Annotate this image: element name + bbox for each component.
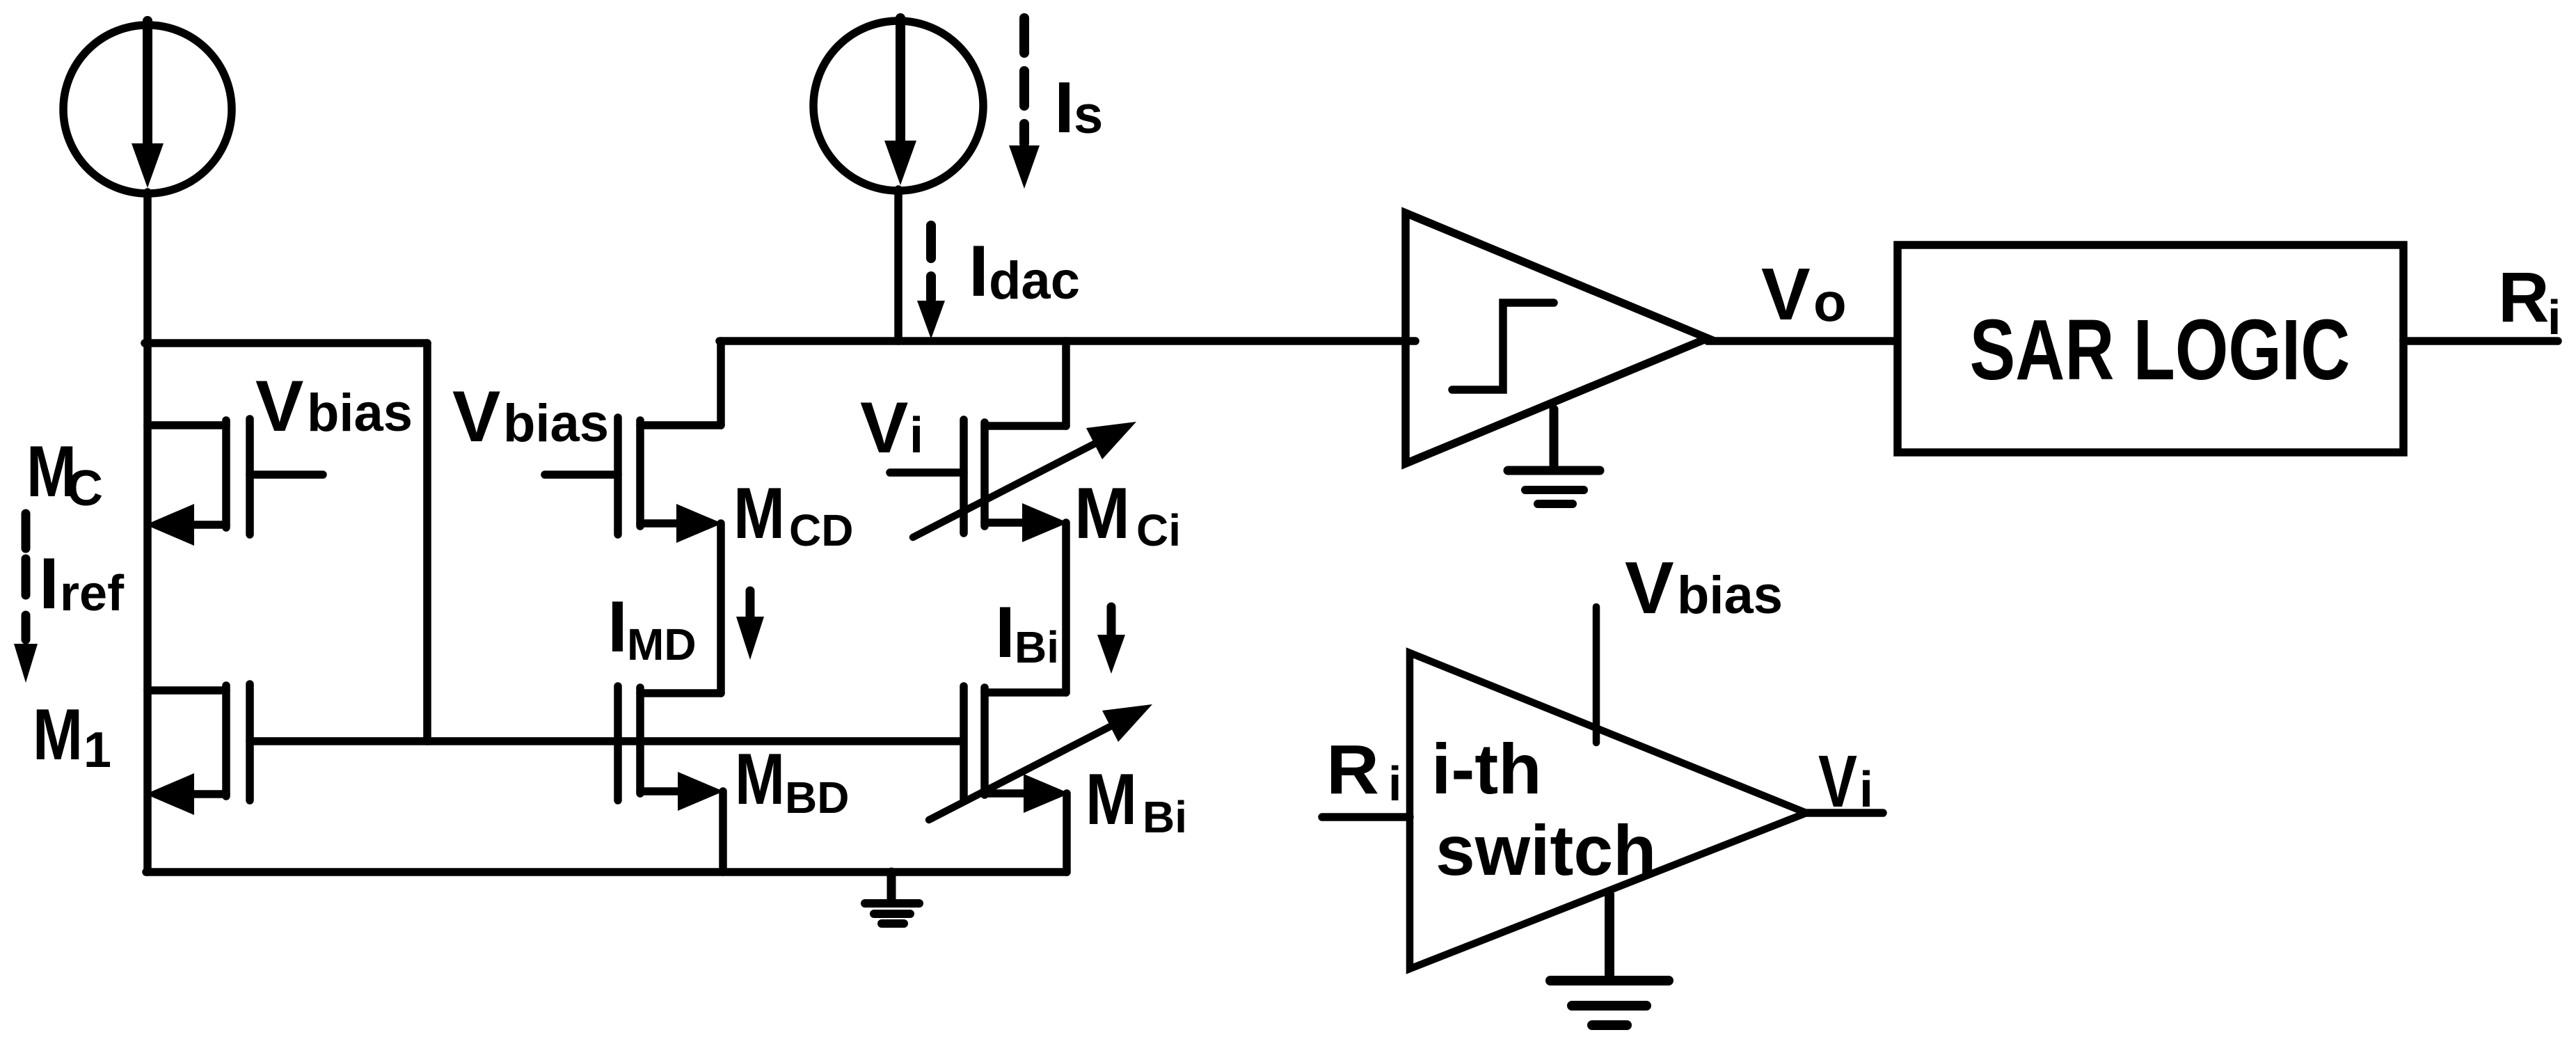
wire: i-th switch output Vi	[1806, 809, 1883, 817]
svg-text:M: M	[733, 473, 785, 554]
dashed arrow Iref	[14, 514, 38, 683]
svg-text:V: V	[1625, 547, 1674, 629]
Vbias stub (i-th switch)	[1593, 607, 1600, 743]
current source Is arrow	[896, 18, 905, 141]
svg-text:BD: BD	[785, 773, 849, 823]
wire: CS2 drop to DAC node	[894, 189, 903, 341]
transistor MC	[145, 419, 323, 546]
current source Is (top-middle)	[813, 21, 983, 191]
wire: bottom rail	[146, 868, 1067, 876]
svg-text:M: M	[33, 695, 83, 775]
comparator hysteresis symbol	[1452, 303, 1554, 390]
svg-text:I: I	[39, 544, 59, 624]
SAR LOGIC box	[1898, 245, 2403, 452]
svg-text:o: o	[1813, 271, 1847, 333]
svg-text:CD: CD	[789, 505, 853, 555]
label Iref	[39, 544, 125, 624]
label Vbias (MC gate)	[255, 366, 413, 447]
label MC	[26, 432, 103, 516]
dashed arrow Idac	[917, 225, 945, 339]
svg-text:i: i	[2547, 290, 2561, 345]
svg-text:V: V	[255, 366, 303, 447]
svg-text:I: I	[969, 231, 989, 312]
svg-text:SAR LOGIC: SAR LOGIC	[1970, 301, 2351, 397]
wire: SAR output Ri	[2403, 337, 2558, 345]
comparator U1	[1406, 213, 1708, 464]
IMD current arrow	[746, 591, 755, 619]
svg-text:i: i	[1388, 757, 1401, 811]
svg-text:i: i	[1859, 762, 1873, 818]
ground (i-th switch)	[1550, 894, 1669, 1025]
current source Iref arrow	[143, 21, 152, 145]
svg-text:dac: dac	[989, 251, 1080, 310]
svg-text:i-th: i-th	[1431, 729, 1542, 809]
label Vi (MCi gate)	[860, 388, 923, 468]
svg-text:ref: ref	[60, 566, 125, 621]
wire: riser from node to mirror gate line	[423, 343, 431, 741]
svg-text:Ci: Ci	[1136, 505, 1181, 555]
svg-text:M: M	[1074, 473, 1130, 554]
IBi current arrow	[1107, 607, 1116, 637]
svg-text:V: V	[452, 377, 500, 457]
svg-text:V: V	[860, 388, 908, 468]
label Vo	[1761, 253, 1847, 335]
label Is	[1054, 68, 1103, 148]
ground (bottom rail)	[865, 872, 919, 924]
svg-text:R: R	[2498, 258, 2550, 337]
svg-text:bias: bias	[503, 394, 609, 453]
label Idac	[969, 231, 1080, 312]
svg-text:1: 1	[84, 722, 111, 778]
transistor MBD	[618, 686, 724, 872]
svg-text:Bi: Bi	[1015, 622, 1059, 672]
wire: top-left node line	[145, 339, 427, 347]
wire: mirror gate line	[250, 737, 963, 745]
wire: CS1 to left rail	[143, 192, 152, 872]
svg-text:I: I	[995, 592, 1015, 673]
label MCi	[1074, 473, 1181, 555]
svg-text:switch: switch	[1436, 811, 1656, 890]
svg-text:V: V	[1818, 741, 1857, 823]
label Ri (SAR output)	[2498, 258, 2561, 345]
svg-text:I: I	[1054, 68, 1074, 148]
wire: Ri input to i-th switch	[1322, 813, 1410, 821]
ground (comparator)	[1508, 409, 1600, 504]
svg-text:V: V	[1761, 253, 1811, 335]
svg-text:bias: bias	[307, 383, 413, 443]
svg-text:I: I	[607, 587, 628, 667]
svg-text:M: M	[1086, 759, 1137, 840]
label Vbias (i-th switch)	[1625, 547, 1783, 629]
transistor MBi (variable)	[929, 686, 1152, 872]
label MBD	[735, 739, 849, 823]
label M1	[33, 695, 111, 778]
svg-text:M: M	[735, 739, 785, 820]
label IBi	[995, 592, 1059, 673]
transistor MCi (variable)	[890, 341, 1136, 692]
wire: DAC node line	[719, 337, 1415, 345]
transistor MCD	[545, 341, 722, 693]
svg-text:Bi: Bi	[1143, 792, 1187, 842]
svg-text:s: s	[1074, 86, 1103, 145]
dashed arrow Is	[1009, 18, 1040, 189]
svg-text:MD: MD	[627, 619, 697, 670]
i-th switch triangle	[1410, 653, 1806, 969]
label IMD	[607, 587, 697, 670]
label Ri (i-th switch input)	[1326, 731, 1401, 811]
svg-text:bias: bias	[1677, 566, 1783, 625]
current source Iref (top-left)	[63, 25, 232, 193]
label Vi (i-th switch output)	[1818, 741, 1873, 823]
wire: comparator output Vo	[1708, 337, 1898, 345]
transistor M1	[145, 684, 250, 815]
label Vbias (MCD gate)	[452, 377, 609, 457]
svg-text:C: C	[67, 461, 103, 516]
svg-text:R: R	[1326, 731, 1379, 809]
label MBi	[1086, 759, 1187, 842]
label MCD	[733, 473, 853, 555]
svg-text:i: i	[909, 408, 923, 464]
